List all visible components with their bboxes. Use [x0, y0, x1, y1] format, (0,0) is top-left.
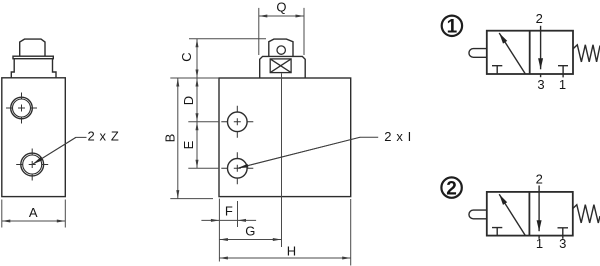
port hole I lower: [228, 159, 248, 179]
dimension C extension line (top of connector): [189, 38, 266, 40]
connector circle: [277, 46, 285, 54]
port hole I upper: [228, 112, 248, 132]
blocked port 3 of schematic 2: [558, 228, 569, 239]
actuation arrow 2: [499, 194, 525, 235]
svg-text:2 x I: 2 x I: [384, 129, 412, 144]
port 3 stub 1: [540, 74, 542, 77]
actuation arrow 1: [499, 33, 525, 74]
svg-text:D: D: [181, 96, 196, 105]
svg-text:2: 2: [446, 178, 457, 199]
connector housing: [269, 39, 293, 56]
blocked port left cell 1: [492, 66, 502, 74]
svg-text:3: 3: [559, 236, 566, 251]
extension line upper hole centre: [188, 121, 218, 123]
svg-text:E: E: [181, 140, 196, 149]
dimension E line: [196, 122, 198, 169]
dimension A line: [2, 220, 66, 222]
dimension B line: [177, 78, 179, 199]
valve body 2: [487, 192, 573, 236]
centre marks upper hole I: [221, 106, 253, 138]
port hole Z lower (inner ring): [23, 155, 42, 174]
body top extension line (left): [170, 77, 219, 79]
leader 2 x Z: [32, 137, 86, 164]
svg-text:H: H: [287, 244, 296, 259]
callout circle 1: [442, 16, 462, 36]
svg-text:G: G: [245, 224, 255, 239]
spring 2: [573, 205, 600, 223]
plunger cap top: [20, 39, 45, 56]
port 1 stub 2: [538, 236, 540, 239]
svg-text:2: 2: [536, 172, 543, 187]
spring 1: [573, 45, 600, 62]
blocked port 1 of schematic 1: [558, 66, 568, 78]
svg-text:Q: Q: [276, 0, 286, 14]
svg-text:2 x Z: 2 x Z: [88, 129, 120, 144]
valve body (front view): [219, 78, 351, 197]
port hole Z upper (outer ring): [11, 97, 33, 119]
extension line below hole centre: [237, 201, 239, 227]
flow path 2-1 arrow 2: [538, 186, 540, 232]
extension line lower hole centre: [188, 167, 218, 169]
port hole Z upper (inner ring): [13, 99, 31, 117]
solenoid coil square: [270, 59, 291, 73]
cap mid section: [11, 59, 56, 78]
svg-text:A: A: [29, 205, 38, 220]
valve body (side view): [2, 78, 66, 197]
dimension Q extension lines: [259, 8, 304, 55]
svg-text:F: F: [225, 204, 233, 219]
svg-text:C: C: [179, 52, 194, 61]
dimension F line: [201, 219, 256, 221]
manual plunger 1: [469, 49, 487, 58]
dimension G line: [219, 239, 281, 241]
svg-text:3: 3: [537, 77, 544, 92]
dimension C line: [196, 39, 198, 78]
valve body 1: [487, 31, 573, 74]
blocked port left cell 2: [492, 228, 502, 236]
body bottom extension line (left): [170, 198, 213, 200]
centre marks lower hole I: [221, 152, 253, 184]
dimension D line: [196, 78, 198, 122]
leader 2 x I: [237, 137, 378, 168]
cap flange: [13, 56, 53, 59]
dimension A extension lines: [2, 200, 66, 228]
port hole Z lower (outer ring): [21, 153, 44, 176]
flow path 2-3 arrow 1: [540, 26, 542, 70]
svg-text:2: 2: [536, 11, 543, 26]
svg-text:1: 1: [559, 77, 566, 92]
solenoid lower housing: [260, 56, 306, 77]
dimension H line: [219, 257, 350, 259]
callout circle 2: [441, 177, 461, 197]
centre line through solenoid: [281, 73, 283, 247]
manual plunger 2: [469, 210, 487, 219]
svg-text:1: 1: [447, 17, 458, 38]
solenoid coil X diagonals: [270, 59, 291, 73]
svg-text:1: 1: [536, 236, 543, 251]
extension line below body left: [218, 199, 220, 262]
dimension Q line: [259, 15, 304, 17]
centre marks lower hole: [16, 149, 48, 181]
svg-text:B: B: [163, 134, 178, 143]
centre marks upper hole: [6, 93, 37, 124]
extension line below body right: [350, 199, 352, 266]
